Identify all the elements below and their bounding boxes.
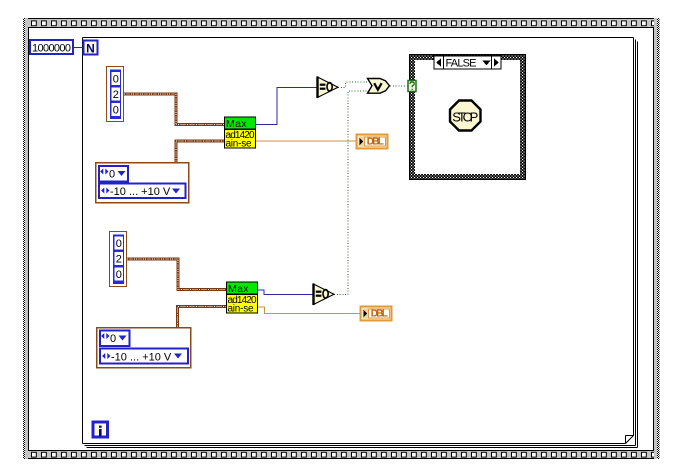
svg-text:2: 2 bbox=[113, 89, 119, 101]
for loop corner fold bbox=[625, 436, 627, 444]
ring glyphs lower bbox=[101, 333, 182, 364]
svg-text:0: 0 bbox=[116, 269, 122, 281]
cluster wire upper ring cluster to icon bbox=[176, 141, 224, 163]
svg-text:-10 ... +10 V: -10 ... +10 V bbox=[111, 352, 172, 364]
=0 glyph upper bbox=[320, 83, 332, 91]
svg-text:0: 0 bbox=[113, 105, 119, 117]
ring glyphs upper bbox=[100, 169, 180, 199]
svg-text:DBL: DBL bbox=[371, 309, 388, 320]
for loop frame 3 bbox=[637, 42, 639, 448]
green dotted wire OR to ? bbox=[390, 85, 408, 87]
svg-text:ain-se: ain-se bbox=[228, 304, 254, 315]
cluster wire lower cluster to icon bbox=[127, 259, 226, 290]
svg-text:N: N bbox=[86, 41, 95, 55]
svg-text:ain-se: ain-se bbox=[226, 139, 252, 150]
while loop left border bbox=[23, 18, 25, 459]
svg-text:Max: Max bbox=[226, 118, 247, 130]
orange wire upper icon to DBL bbox=[256, 140, 356, 142]
while loop top border band bbox=[23, 18, 659, 19]
svg-text:2: 2 bbox=[116, 254, 122, 266]
while loop bottom border band bbox=[23, 450, 659, 451]
STOP function bbox=[450, 101, 481, 131]
while loop right border bbox=[653, 27, 654, 451]
cluster wire upper cluster to icon bbox=[124, 94, 224, 125]
DBL indicator lower bbox=[361, 307, 392, 321]
green dotted wire =0 lower to OR bbox=[334, 91, 368, 295]
case structure bbox=[409, 54, 526, 180]
i iteration terminal bbox=[93, 422, 108, 437]
numeric constant 1000000 bbox=[30, 40, 73, 54]
=0 glyph lower bbox=[316, 290, 328, 298]
=0 comparator lower bbox=[314, 284, 335, 306]
DBL indicator upper bbox=[357, 135, 388, 149]
N count terminal bbox=[84, 41, 98, 55]
svg-text:0: 0 bbox=[110, 333, 116, 345]
blue wire lower icon to =0 bbox=[258, 290, 314, 295]
for loop frame 2 bbox=[635, 40, 637, 446]
cluster wire lower ring cluster to icon bbox=[178, 307, 227, 328]
Max VI icon upper bbox=[224, 117, 256, 149]
OR gate bbox=[368, 79, 390, 94]
ring cluster lower (+0 / -10..+10V) bbox=[97, 328, 191, 368]
svg-text:0: 0 bbox=[113, 74, 119, 86]
=0 comparator upper bbox=[318, 77, 339, 99]
svg-text:1000000: 1000000 bbox=[32, 43, 71, 55]
v glyph of OR bbox=[374, 83, 381, 90]
case selector terminal ? bbox=[408, 81, 416, 92]
svg-text:STOP: STOP bbox=[452, 110, 478, 125]
green dotted wire =0 upper to OR bbox=[338, 82, 368, 88]
blue wire upper icon to =0 bbox=[256, 88, 318, 125]
svg-text:0: 0 bbox=[109, 169, 115, 181]
Max VI icon lower bbox=[226, 282, 258, 314]
ring cluster upper (+0 / -10..+10V) bbox=[96, 163, 189, 203]
orange wire lower icon to DBL bbox=[258, 307, 360, 314]
svg-text:-10 ... +10 V: -10 ... +10 V bbox=[110, 186, 171, 198]
wire constant to N bbox=[73, 47, 83, 49]
svg-text:DBL: DBL bbox=[367, 137, 384, 148]
for loop main frame bbox=[83, 38, 638, 448]
cluster constant lower 0 2 0 bbox=[110, 232, 127, 287]
case selector label bbox=[434, 56, 501, 69]
cluster constant upper 0 2 0 bbox=[107, 67, 124, 122]
svg-text:Max: Max bbox=[228, 283, 249, 295]
svg-text:FALSE: FALSE bbox=[446, 58, 477, 70]
svg-text:0: 0 bbox=[116, 238, 122, 250]
